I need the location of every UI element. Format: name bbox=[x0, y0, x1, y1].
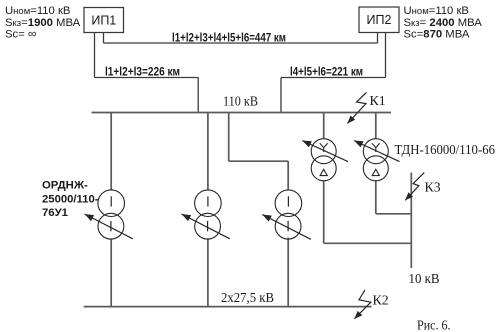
svg-text:ИП1: ИП1 bbox=[91, 14, 116, 28]
svg-text:Uном=110 кВ: Uном=110 кВ bbox=[5, 5, 70, 17]
svg-text:110 кВ: 110 кВ bbox=[223, 93, 258, 108]
svg-text:25000/110-: 25000/110- bbox=[42, 193, 99, 205]
svg-text:l1+l2+l3=226 км: l1+l2+l3=226 км bbox=[105, 65, 180, 79]
svg-text:10 кВ: 10 кВ bbox=[409, 271, 440, 286]
svg-text:Sкз= 2400 МВА: Sкз= 2400 МВА bbox=[404, 17, 483, 29]
svg-text:ИП2: ИП2 bbox=[367, 13, 392, 27]
svg-text:Sкз=1900 МВА: Sкз=1900 МВА bbox=[5, 17, 81, 29]
svg-text:К2: К2 bbox=[373, 292, 389, 307]
svg-text:К3: К3 bbox=[425, 179, 441, 194]
svg-text:l1+l2+l3+l4+l5+l6=447 км: l1+l2+l3+l4+l5+l6=447 км bbox=[172, 31, 286, 45]
svg-text:Uном=110 кВ: Uном=110 кВ bbox=[404, 5, 469, 17]
svg-text:Рис. 6.: Рис. 6. bbox=[417, 318, 451, 332]
svg-text:К1: К1 bbox=[370, 93, 386, 108]
svg-text:Sc= ∞: Sc= ∞ bbox=[5, 27, 36, 41]
svg-text:2х27,5 кВ: 2х27,5 кВ bbox=[221, 290, 274, 305]
svg-text:ОРДНЖ-: ОРДНЖ- bbox=[42, 179, 88, 191]
svg-text:Sc=870 МВА: Sc=870 МВА bbox=[404, 29, 470, 41]
svg-text:ТДН-16000/110-66: ТДН-16000/110-66 bbox=[395, 142, 496, 157]
svg-text:76У1: 76У1 bbox=[42, 207, 68, 219]
svg-text:l4+l5+l6=221 км: l4+l5+l6=221 км bbox=[290, 65, 363, 79]
